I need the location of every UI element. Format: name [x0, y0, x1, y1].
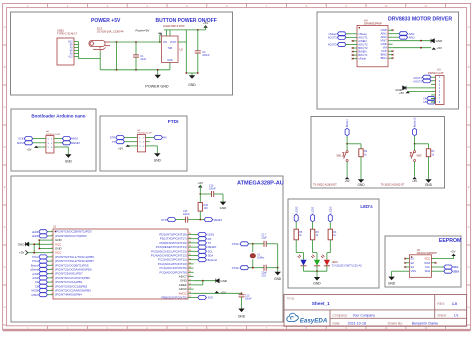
- svg-text:LED2: LED2: [294, 206, 298, 213]
- power flag +5V under SW2: [412, 177, 416, 179]
- net flag RX at H5: [150, 137, 154, 139]
- svg-text:MISO: MISO: [32, 293, 39, 297]
- wire C2 column top: [197, 30, 199, 51]
- power flag +5V right of U4: [432, 47, 436, 49]
- pin 2 of H3: [431, 80, 436, 82]
- wire VSS to ground: [392, 270, 406, 272]
- svg-text:29: 29: [189, 246, 191, 248]
- pin A12 of USB1: [74, 56, 79, 58]
- net flag RESET at U1 right row 4: [194, 246, 198, 248]
- wire R1 to GND: [428, 157, 430, 180]
- wire SW1 to +5V: [346, 162, 348, 177]
- net flag RESET at H4: [58, 142, 62, 144]
- wire C2 bottom to gnd rail: [197, 53, 199, 73]
- svg-text:Company:: Company:: [333, 313, 348, 317]
- wire junction to resistor column: [347, 143, 361, 145]
- pin 2 of H4: [54, 138, 58, 140]
- svg-text:REV:: REV:: [437, 302, 445, 306]
- svg-text:VOUT: VOUT: [170, 41, 177, 44]
- pin 23 PC0(ADC0/PCINT8) of U1 right: [188, 271, 194, 273]
- svg-text:18: 18: [189, 292, 191, 294]
- pin 6 VCC of U1: [47, 252, 53, 254]
- pin SDA of U6 right: [431, 270, 435, 272]
- wire crystal right rail: [277, 244, 279, 268]
- ground GND under R2: [358, 179, 364, 183]
- svg-text:26: 26: [189, 258, 191, 260]
- pin 4 of H5: [146, 141, 150, 143]
- resistor R4 1k: [328, 229, 332, 240]
- pin 13 (PCINT1/OC1A)PB1 of U1: [47, 281, 53, 283]
- svg-text:27: 27: [189, 254, 191, 256]
- pin 1 of H4: [42, 138, 46, 140]
- svg-text:nFault: nFault: [358, 57, 366, 61]
- svg-text:LED3: LED3: [328, 206, 332, 213]
- pin E2 of U6: [405, 262, 409, 264]
- svg-text:13: 13: [51, 281, 53, 283]
- svg-text:1: 1: [51, 230, 52, 232]
- svg-text:Button: Button: [31, 263, 39, 267]
- wire lower gnd rail right: [186, 72, 198, 74]
- svg-text:TX: TX: [208, 241, 212, 245]
- svg-text:Drawn By:: Drawn By:: [388, 321, 403, 325]
- svg-text:28: 28: [189, 250, 191, 252]
- svg-text:RESET: RESET: [214, 218, 223, 222]
- net flag LED1 at U1 right row 1: [194, 234, 198, 236]
- pin B9 of USB1: [74, 44, 79, 46]
- svg-text:(PCINT4/MISO)PB4: (PCINT4/MISO)PB4: [55, 293, 82, 297]
- pin 27 PC4(ADC4/SDA/PCINT12) of U1 right: [188, 255, 194, 257]
- svg-text:Button2: Button2: [413, 117, 417, 127]
- svg-text:+5V: +5V: [450, 250, 455, 254]
- net flag AIN2: [393, 36, 399, 38]
- pin VINT of U4 right: [388, 40, 393, 42]
- svg-text:TJ-S1615CY3W7TLC2G-A5: TJ-S1615CY3W7TLC2G-A5: [332, 264, 363, 267]
- node junction Button: [346, 143, 348, 145]
- svg-text:TYPE-C-31-M-17: TYPE-C-31-M-17: [57, 32, 78, 36]
- svg-text:POWER GND: POWER GND: [145, 84, 168, 88]
- pin nFault of U4: [353, 58, 357, 60]
- junction ground rail / C1: [135, 69, 137, 71]
- svg-text:4: 4: [51, 243, 52, 245]
- wire R5 to LED anode: [295, 240, 297, 253]
- svg-text:9: 9: [51, 264, 52, 266]
- svg-text:MISO: MISO: [72, 137, 79, 141]
- wire U2 top pin 1 to rail: [165, 30, 167, 36]
- pin B5 of USB1: [74, 50, 79, 52]
- pin AIN2 of U4 right: [388, 36, 393, 38]
- svg-text:GND: GND: [65, 159, 73, 163]
- wire LED1 flag to R3: [312, 222, 314, 229]
- svg-text:A12: A12: [68, 56, 73, 59]
- EasyEDA logo: [287, 313, 298, 321]
- svg-text:H: H: [4, 305, 6, 309]
- svg-text:SCL: SCL: [208, 249, 214, 253]
- svg-text:TX: TX: [112, 140, 116, 144]
- pin BOUT1 of U4: [353, 54, 357, 56]
- pin 4 of H3: [431, 87, 436, 89]
- block box: FTDI: [100, 116, 187, 171]
- wire VCC to +5V: [436, 258, 454, 260]
- svg-text:7: 7: [51, 256, 52, 258]
- pin BIN1 of U4 right: [388, 57, 393, 59]
- svg-text:C5: C5: [35, 284, 39, 288]
- svg-text:TAB: TAB: [168, 47, 173, 50]
- svg-text:RESET: RESET: [72, 141, 81, 145]
- pin 31 PD1(TXD/PCINT17) of U1 right: [188, 238, 194, 240]
- svg-text:nSleep: nSleep: [328, 32, 337, 36]
- svg-text:GND: GND: [425, 183, 433, 187]
- svg-text:+5V: +5V: [19, 251, 24, 255]
- wire VOUT to +5V rail: [183, 41, 186, 43]
- svg-text:C: C: [4, 105, 6, 109]
- net flag SCL at U6: [436, 266, 444, 268]
- svg-text:G: G: [4, 265, 6, 269]
- pin 3 of DC2: [99, 50, 101, 52]
- svg-text:RX: RX: [163, 136, 167, 140]
- svg-text:20: 20: [189, 284, 191, 286]
- svg-text:17: 17: [189, 296, 191, 298]
- svg-text:D: D: [4, 145, 6, 149]
- switch SW1 TS-1002C: [346, 144, 348, 151]
- wire R2 to GND: [360, 157, 362, 180]
- wire C13 to GND: [241, 297, 243, 308]
- svg-text:C4: C4: [423, 96, 427, 100]
- pin 6 of H4: [54, 146, 58, 148]
- svg-text:1.0: 1.0: [452, 302, 457, 306]
- pin AOUT1 of U4: [353, 36, 357, 38]
- svg-text:nSleep: nSleep: [30, 268, 39, 272]
- switch SW2 TS-1002C: [414, 144, 416, 151]
- svg-text:10K: 10K: [204, 207, 209, 210]
- wire R10 to reset line: [199, 211, 201, 220]
- svg-text:C18: C18: [261, 275, 266, 278]
- svg-text:LM1117MP-5.0/TR: LM1117MP-5.0/TR: [163, 24, 185, 28]
- svg-text:SCL: SCL: [425, 265, 431, 269]
- svg-text:100nF: 100nF: [183, 213, 190, 216]
- svg-text:21: 21: [189, 279, 191, 281]
- net flag SCK at U1 right: [194, 297, 198, 299]
- svg-text:ATMEGA328P-AU: ATMEGA328P-AU: [237, 181, 284, 187]
- svg-text:Your Company: Your Company: [353, 313, 376, 317]
- block box: EEPROM: [385, 236, 461, 287]
- svg-text:B: B: [468, 65, 470, 69]
- capacitor C16 100nF: [211, 191, 213, 197]
- wire C16 to GND: [214, 193, 223, 195]
- svg-text:B: B: [4, 65, 6, 69]
- pin A5 of USB1: [74, 47, 79, 49]
- svg-text:TITLE:: TITLE:: [287, 296, 296, 300]
- pin E3 of U6: [405, 266, 409, 268]
- pin 5 of H5: [133, 145, 137, 147]
- svg-text:PZ254V-11-8P: PZ254V-11-8P: [428, 72, 444, 75]
- pin nSleep of U4: [353, 33, 357, 35]
- pin 18 AVCC of U1 right: [188, 292, 194, 294]
- svg-text:3: 3: [51, 239, 52, 241]
- svg-text:19: 19: [189, 288, 191, 290]
- svg-text:Power=5V: Power=5V: [136, 28, 150, 32]
- crystal X1 16MHz: [252, 244, 254, 252]
- svg-text:E: E: [468, 185, 470, 189]
- wire +5V top rail: [164, 29, 206, 31]
- pin WC# of U6 right: [431, 262, 435, 264]
- svg-text:8: 8: [51, 260, 52, 262]
- capacitor C1 10uF: [133, 54, 139, 56]
- svg-text:AIN2: AIN2: [32, 272, 38, 276]
- ground GND at H4: [58, 146, 68, 148]
- svg-text:LED1: LED1: [311, 206, 315, 213]
- junction ground rail / jack node: [116, 69, 118, 71]
- svg-text:LED's: LED's: [360, 204, 373, 209]
- svg-text:2021-10-18: 2021-10-18: [348, 321, 366, 325]
- net flag AIN1: [393, 33, 399, 35]
- wire GND flag to gnd pins: [29, 243, 40, 245]
- svg-text:GND: GND: [436, 39, 444, 43]
- wire Button flag to junction: [346, 136, 348, 144]
- svg-text:AOUT1: AOUT1: [328, 36, 337, 40]
- svg-text:11: 11: [51, 272, 53, 274]
- pin 4 of H4: [54, 142, 58, 144]
- svg-text:E2: E2: [411, 261, 415, 265]
- net flag MISO at H4: [58, 138, 62, 140]
- svg-text:24: 24: [189, 267, 191, 269]
- node junction +5V/C16/R10: [199, 193, 201, 195]
- node junction on +V rail at C1: [116, 41, 118, 43]
- svg-text:A: A: [468, 25, 470, 29]
- pin 21 GND of U1 right: [188, 280, 194, 282]
- svg-text:E: E: [4, 185, 6, 189]
- block box: DRV8833 motor driver section: [317, 12, 459, 109]
- svg-text:+5V: +5V: [198, 181, 203, 185]
- net flag TX at U1 right row 3: [194, 242, 198, 244]
- node junction AVCC / C13: [241, 292, 243, 294]
- resistor R10 10K: [198, 203, 202, 212]
- wire LED LED3 cathode down: [326, 266, 328, 271]
- svg-text:31: 31: [189, 237, 191, 239]
- wire VM row to +5V: [393, 47, 431, 49]
- svg-text:+5V: +5V: [118, 147, 123, 151]
- resistor R5 1k: [294, 229, 298, 240]
- wire ground rail horizontal: [100, 69, 170, 71]
- pin VM of U4 right: [388, 47, 393, 49]
- pin E1 of U6: [405, 258, 409, 260]
- pin VSS of U6: [405, 270, 409, 272]
- wire H3 pin5 to +5V: [408, 90, 431, 92]
- wire H3 pin4 to GND: [406, 87, 431, 89]
- wire +5V flag to vcc pins: [28, 252, 34, 254]
- svg-text:GND: GND: [18, 242, 26, 246]
- svg-text:VIN: VIN: [163, 41, 167, 44]
- net flag SCL at U1 right row 5: [194, 250, 198, 252]
- wire C17 to right rail: [266, 243, 278, 245]
- svg-text:C5: C5: [423, 100, 427, 104]
- block box: push buttons: [311, 117, 445, 189]
- net flag RX at U1 right row 2: [194, 238, 198, 240]
- svg-text:DTR: DTR: [161, 218, 166, 222]
- svg-text:XTAL: XTAL: [232, 242, 240, 246]
- power flag +5V at H3: [406, 91, 410, 93]
- capacitor C18 22pF: [263, 265, 265, 271]
- pin 1 of DC2: [105, 41, 110, 43]
- resistor R2 1k: [359, 149, 363, 157]
- pin 2 of DC2: [105, 45, 110, 47]
- ground GND at U6: [388, 277, 394, 281]
- LED LED3 triangle: [324, 260, 330, 266]
- node junction Button2: [414, 143, 416, 145]
- power flag +5V above C16: [198, 185, 202, 188]
- ground GND right of regulator: [191, 73, 193, 75]
- pin 12 (PCINT0/CLKO/ICP1)PB0 of U1: [47, 277, 53, 279]
- svg-text:A: A: [4, 25, 6, 29]
- svg-text:C: C: [468, 105, 470, 109]
- svg-text:TS-1002C-A1183J-DT: TS-1002C-A1183J-DT: [313, 184, 337, 187]
- svg-text:DRV8833PWP: DRV8833PWP: [364, 22, 382, 26]
- wire DTR to C15: [176, 219, 186, 221]
- svg-text:+5V: +5V: [437, 46, 442, 50]
- wire C18 to right rail: [266, 267, 278, 269]
- pin GND of U4 right: [388, 29, 393, 31]
- svg-text:GND: GND: [274, 277, 282, 281]
- svg-text:Benjamin Clarke: Benjamin Clarke: [412, 321, 438, 325]
- svg-text:Button: Button: [345, 119, 349, 128]
- pin 5 of H4: [42, 146, 46, 148]
- pin 28 PC5(ADC5/SCL/PCINT13) of U1 right: [188, 250, 194, 252]
- wire C1 bottom to ground rail: [135, 58, 137, 70]
- pin 16 (PCINT4/MISO)PB4 of U1: [47, 294, 53, 296]
- svg-text:SCK: SCK: [18, 137, 24, 141]
- pin GND of U4 right: [388, 43, 393, 45]
- svg-text:16Mhz: 16Mhz: [257, 257, 265, 260]
- svg-text:Sheet_1: Sheet_1: [312, 301, 330, 306]
- pin BISEN of U4: [353, 51, 357, 53]
- capacitor C13 100nF: [241, 293, 243, 294]
- wire C15 to RESET flag: [188, 219, 204, 221]
- svg-text:Bootloader Arduino nano: Bootloader Arduino nano: [31, 114, 85, 119]
- pin 1 (PCINT19/OC2B/INT1)PD3 of U1: [47, 231, 53, 233]
- svg-text:TS-1002C-A1183J-DT: TS-1002C-A1183J-DT: [381, 184, 405, 187]
- svg-text:AOUT2: AOUT2: [328, 43, 337, 47]
- svg-text:22pF: 22pF: [261, 236, 267, 239]
- svg-text:FTDI: FTDI: [168, 119, 179, 125]
- svg-text:LED2: LED2: [32, 234, 39, 238]
- svg-text:GND: GND: [313, 282, 321, 286]
- wire Button2 flag to junction: [414, 136, 416, 144]
- svg-text:C4: C4: [35, 280, 39, 284]
- svg-text:30: 30: [189, 242, 191, 244]
- pin 15 (PCINT3/OC2A/MOSI)PB3 of U1: [47, 290, 53, 292]
- ground GND right of C16: [220, 202, 226, 206]
- ground flag GND at H3: [403, 86, 406, 90]
- net flag RESET top: [204, 218, 213, 222]
- pin 10 (PCINT22/OC0A/AIN0)PD6 of U1: [47, 269, 53, 271]
- svg-text:GND: GND: [220, 206, 228, 210]
- pin 14 (PCINT2/SS/OC1B)PB2 of U1: [47, 285, 53, 287]
- title block frame: [284, 295, 467, 327]
- wire jack node vertical: [116, 42, 118, 70]
- ground GND under LEDs: [316, 271, 318, 277]
- svg-text:Button2: Button2: [208, 258, 218, 262]
- svg-text:AOUT1: AOUT1: [413, 76, 422, 80]
- svg-text:PB5(SCK/PCINT5): PB5(SCK/PCINT5): [161, 296, 186, 300]
- wire junction to resistor column: [415, 143, 429, 145]
- svg-text:15: 15: [51, 289, 53, 291]
- pin 1 of H5: [133, 137, 137, 139]
- pin 7 of H3: [431, 98, 436, 100]
- svg-text:GND: GND: [238, 315, 246, 319]
- pin VIN of U2: [158, 41, 162, 43]
- svg-text:DRV8833 MOTOR DRIVER: DRV8833 MOTOR DRIVER: [388, 16, 452, 22]
- wire U2 top pin 2 to rail: [169, 30, 171, 36]
- svg-text:10uF: 10uF: [140, 57, 146, 61]
- pin 24 PC1(ADC1/PCINT9) of U1 right: [188, 267, 194, 269]
- pin AIN1 of U4 right: [388, 33, 393, 35]
- ground flag GND at U1 right: [194, 280, 216, 282]
- svg-text:SDA: SDA: [208, 254, 214, 258]
- svg-text:XTAL: XTAL: [232, 266, 240, 270]
- svg-text:Sheet:: Sheet:: [437, 314, 447, 318]
- power flag +5V at U6: [451, 254, 455, 256]
- svg-text:D: D: [468, 145, 470, 149]
- pin A9 of USB1: [74, 53, 79, 55]
- pin 5 of H3: [431, 90, 436, 92]
- svg-text:DC-005-20A_C136744: DC-005-20A_C136744: [97, 30, 124, 34]
- pin 2 of H5: [146, 137, 150, 139]
- capacitor C15 100nF: [185, 217, 187, 223]
- pin BOUT2 of U4: [353, 47, 357, 49]
- pin 7 (PCINT6/XTAL1/TOSC1)PB6 of U1: [47, 256, 53, 258]
- wire DC2 sleeve down: [99, 51, 101, 70]
- svg-text:25: 25: [189, 263, 191, 265]
- svg-text:10: 10: [51, 268, 53, 270]
- svg-text:G: G: [468, 265, 470, 269]
- pin 2 (PCINT20/XCK/T0)PD4 of U1: [47, 235, 53, 237]
- svg-text:100nF: 100nF: [245, 298, 252, 301]
- svg-text:+5V: +5V: [203, 21, 208, 25]
- svg-text:32: 32: [189, 233, 191, 235]
- svg-text:LED1: LED1: [208, 233, 215, 237]
- power flag +5V top right: [203, 25, 207, 28]
- ground GND under C13: [238, 309, 244, 313]
- pin 3 GND of U1: [47, 239, 53, 241]
- svg-text:U2: U2: [180, 48, 184, 52]
- wire R3 to LED anode: [312, 240, 314, 253]
- pin 5 GND of U1: [47, 248, 53, 250]
- LED LED2 triangle: [300, 260, 306, 266]
- wire LED3 flag to R4: [329, 222, 331, 229]
- LED LED1 triangle: [314, 260, 320, 266]
- pin 1 of H3: [431, 76, 436, 78]
- pin 29 PC6(RESET/PCINT14) of U1 right: [188, 246, 194, 248]
- svg-text:GND: GND: [188, 83, 196, 87]
- svg-text:VCC: VCC: [425, 257, 431, 261]
- svg-text:VSS: VSS: [411, 269, 417, 273]
- ground flag GND right of U4: [431, 39, 434, 43]
- svg-text:6: 6: [51, 251, 52, 253]
- pin 26 PC3(ADC3/PCINT11) of U1 right: [188, 259, 194, 261]
- svg-text:SDA: SDA: [453, 269, 459, 273]
- wire USB bus to DC jack node: [79, 58, 101, 60]
- svg-text:+5V: +5V: [399, 91, 404, 95]
- svg-text:5: 5: [51, 247, 52, 249]
- svg-text:GND: GND: [154, 158, 162, 162]
- block box: LEDs: [288, 199, 379, 288]
- svg-text:SW2: SW2: [416, 154, 422, 157]
- svg-text:2: 2: [51, 235, 52, 237]
- ground GND under R1: [425, 179, 431, 183]
- capacitor C17 22pF: [263, 241, 265, 247]
- wire VINT row to GND flag: [393, 40, 431, 42]
- wire R4 to LED anode: [329, 240, 331, 253]
- svg-text:MOSI: MOSI: [17, 141, 24, 145]
